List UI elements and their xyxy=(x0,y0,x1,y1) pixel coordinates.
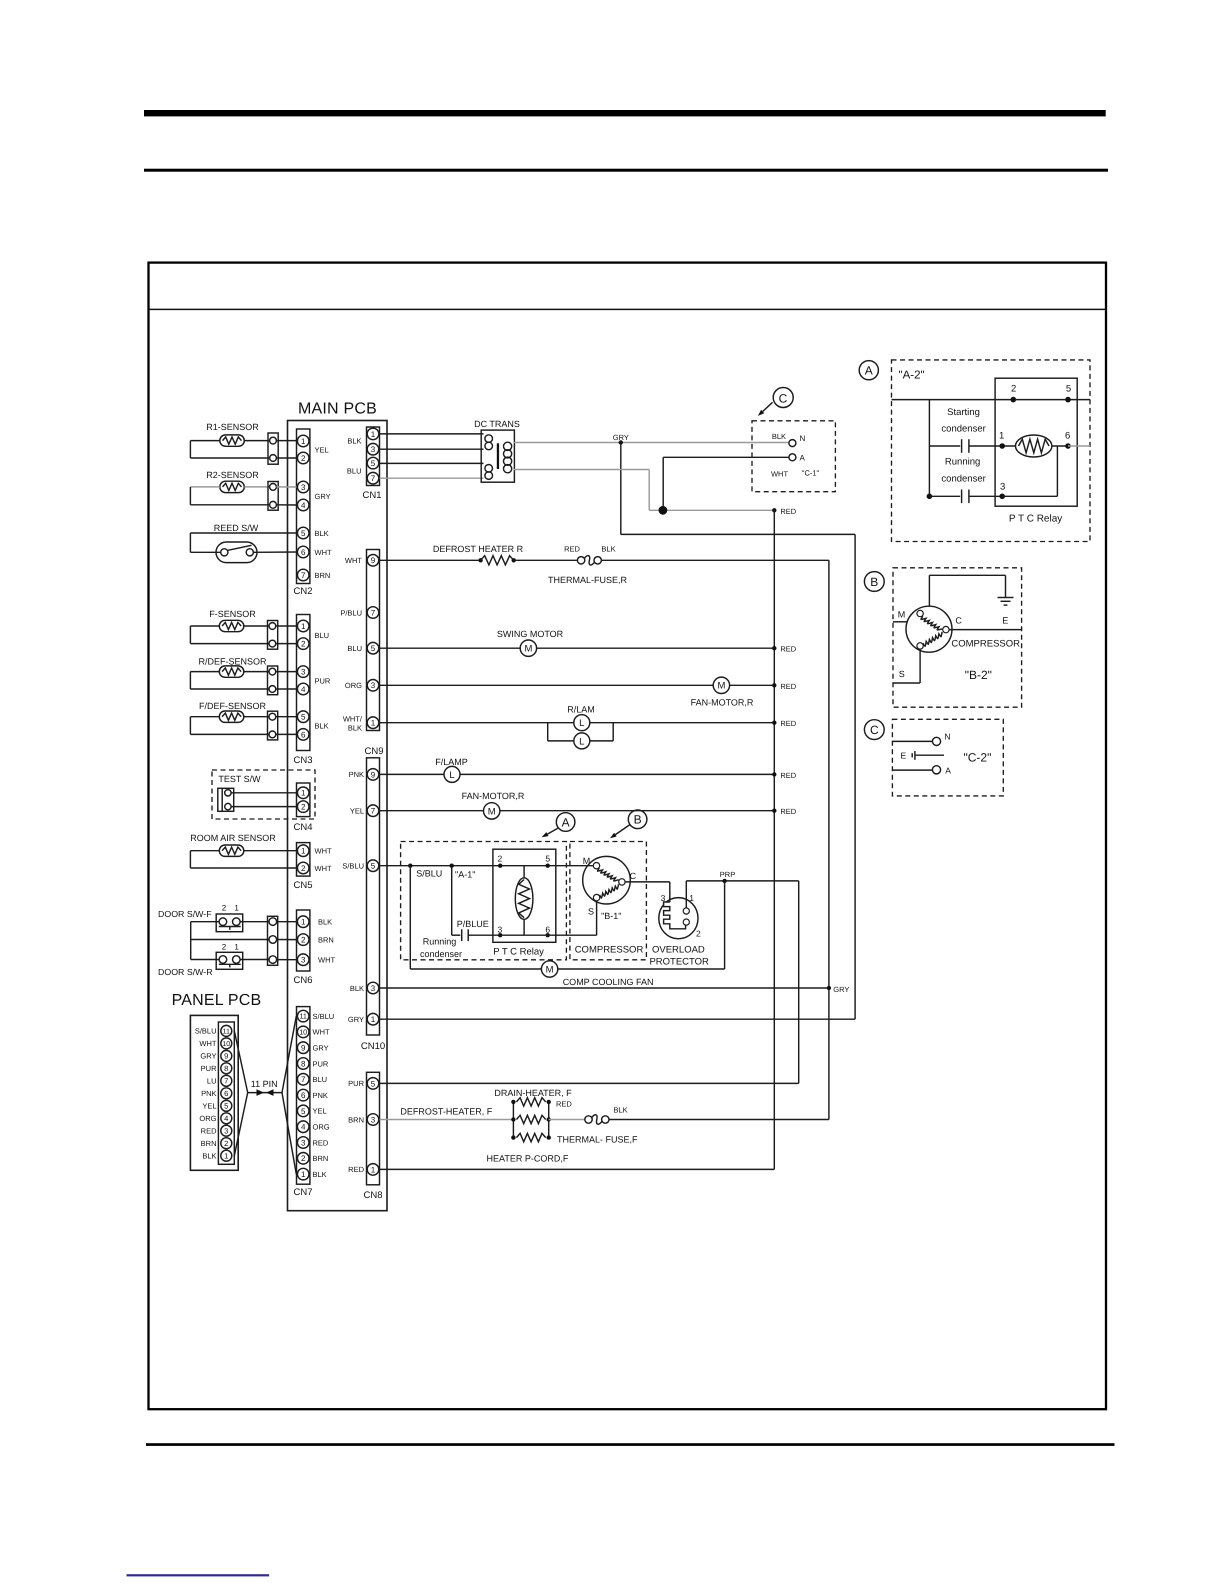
svg-text:RED: RED xyxy=(201,1126,217,1135)
svg-text:LU: LU xyxy=(207,1077,217,1086)
svg-text:9: 9 xyxy=(224,1052,228,1061)
svg-text:5: 5 xyxy=(301,529,306,538)
svg-text:RED: RED xyxy=(780,719,796,728)
svg-text:C: C xyxy=(779,391,788,405)
svg-text:7: 7 xyxy=(224,1077,228,1086)
ground B-2 xyxy=(929,575,1013,625)
wire PRP xyxy=(686,870,798,883)
svg-text:1: 1 xyxy=(224,1151,228,1160)
wires CN1 to DC TRANS xyxy=(380,434,484,478)
svg-text:BRN: BRN xyxy=(348,1115,364,1124)
svg-text:M: M xyxy=(717,681,725,692)
svg-text:S/BLU: S/BLU xyxy=(416,869,442,879)
svg-text:F-SENSOR: F-SENSOR xyxy=(209,609,256,619)
svg-text:PNK: PNK xyxy=(201,1089,216,1098)
svg-text:GRY: GRY xyxy=(313,1044,329,1053)
svg-text:R/LAM: R/LAM xyxy=(567,705,595,715)
svg-text:8: 8 xyxy=(224,1064,228,1073)
svg-text:BLU: BLU xyxy=(315,631,330,640)
connector CN10 xyxy=(342,758,385,1052)
svg-text:BRN: BRN xyxy=(313,1154,329,1163)
svg-text:PROTECTOR: PROTECTOR xyxy=(649,957,709,968)
svg-text:P/BLU: P/BLU xyxy=(340,608,362,617)
svg-text:11: 11 xyxy=(299,1012,306,1021)
svg-text:9: 9 xyxy=(371,556,376,565)
thermistor F-SENSOR xyxy=(190,609,296,649)
svg-text:1: 1 xyxy=(301,1170,306,1179)
svg-text:F/LAMP: F/LAMP xyxy=(435,757,468,767)
svg-text:9: 9 xyxy=(371,770,376,779)
svg-text:"B-1": "B-1" xyxy=(601,911,621,921)
lamp R/LAM xyxy=(380,705,797,749)
svg-text:8: 8 xyxy=(301,1059,306,1068)
motor COMP COOLING FAN xyxy=(410,866,724,987)
svg-text:5: 5 xyxy=(545,854,550,864)
svg-text:RED: RED xyxy=(348,1165,364,1174)
svg-text:10: 10 xyxy=(299,1028,307,1037)
svg-text:2: 2 xyxy=(222,942,227,951)
svg-text:FAN-MOTOR,R: FAN-MOTOR,R xyxy=(462,791,525,801)
svg-text:B: B xyxy=(870,575,878,589)
wire secondary bottom xyxy=(514,470,775,511)
svg-text:E: E xyxy=(1002,616,1008,626)
door switch DOOR S/W-R xyxy=(158,942,270,977)
svg-text:condenser: condenser xyxy=(941,424,985,435)
svg-text:7: 7 xyxy=(301,1075,306,1084)
svg-text:2: 2 xyxy=(301,803,306,812)
svg-text:A: A xyxy=(945,766,951,776)
svg-text:FAN-MOTOR,R: FAN-MOTOR,R xyxy=(691,698,754,708)
svg-text:M: M xyxy=(898,610,906,620)
svg-text:Starting: Starting xyxy=(947,407,980,418)
dashed box A-1 xyxy=(401,842,567,960)
svg-text:THERMAL-FUSE,R: THERMAL-FUSE,R xyxy=(548,575,628,585)
svg-text:Running: Running xyxy=(423,937,457,947)
svg-text:BLU: BLU xyxy=(347,644,362,653)
wires B-2 terminals xyxy=(893,622,1022,683)
compressor B-2 xyxy=(898,606,1020,682)
connector CN8 xyxy=(348,1072,382,1201)
transformer DC TRANS xyxy=(474,419,520,482)
svg-text:WHT: WHT xyxy=(318,956,335,965)
svg-text:4: 4 xyxy=(301,1123,306,1132)
svg-text:2: 2 xyxy=(1011,384,1016,395)
svg-text:2: 2 xyxy=(696,929,701,939)
PANEL PCB outline xyxy=(190,1015,238,1170)
svg-text:3: 3 xyxy=(371,681,376,690)
svg-text:YEL: YEL xyxy=(315,445,329,454)
svg-text:1: 1 xyxy=(371,430,376,439)
capacitor Running condenser A-1 xyxy=(420,866,500,959)
svg-text:6: 6 xyxy=(301,1091,306,1100)
callout B arrow xyxy=(610,810,647,838)
connector CN2 xyxy=(293,429,332,597)
wire C-1 A-line xyxy=(663,457,789,506)
wire C to protector xyxy=(625,882,670,902)
svg-text:1: 1 xyxy=(999,431,1004,442)
svg-text:GRY: GRY xyxy=(200,1052,216,1061)
svg-text:7: 7 xyxy=(371,608,376,617)
svg-text:WHT: WHT xyxy=(199,1039,216,1048)
svg-text:DOOR S/W-F: DOOR S/W-F xyxy=(158,909,212,919)
svg-text:3: 3 xyxy=(371,984,376,993)
svg-text:3: 3 xyxy=(301,956,306,965)
test switch TEST S/W xyxy=(212,770,315,819)
svg-text:1: 1 xyxy=(371,1015,376,1024)
wire CN8 RED pin1 xyxy=(380,1168,775,1170)
wire PRP to CN8 pin5 vertical xyxy=(798,881,800,1084)
svg-text:"C-1": "C-1" xyxy=(802,469,820,478)
top rule thick xyxy=(144,110,1106,116)
svg-text:WHT: WHT xyxy=(315,847,332,856)
svg-text:5: 5 xyxy=(371,1079,376,1088)
svg-text:11 PIN: 11 PIN xyxy=(251,1079,278,1089)
svg-text:N: N xyxy=(944,732,950,742)
terminal A C-2 xyxy=(892,766,951,776)
terminal N C-2 xyxy=(892,732,950,746)
capacitor Starting condenser xyxy=(929,407,1015,453)
resistor DEFROST HEATER R xyxy=(380,544,578,565)
svg-text:C: C xyxy=(870,723,879,737)
svg-text:3: 3 xyxy=(224,1127,228,1136)
svg-text:CN9: CN9 xyxy=(364,746,383,757)
svg-text:A: A xyxy=(800,454,806,463)
label C-2 xyxy=(963,751,991,765)
door switch inline connector xyxy=(191,916,297,965)
svg-text:3: 3 xyxy=(301,1138,306,1147)
terminal E C-2 xyxy=(900,751,944,761)
svg-text:C: C xyxy=(630,871,637,881)
svg-text:PANEL PCB: PANEL PCB xyxy=(172,992,262,1009)
svg-text:1: 1 xyxy=(301,789,306,798)
svg-text:"A-1": "A-1" xyxy=(455,870,475,880)
svg-text:3: 3 xyxy=(1000,482,1005,493)
svg-text:6: 6 xyxy=(545,925,550,935)
svg-text:S: S xyxy=(899,669,905,679)
svg-text:"C-2": "C-2" xyxy=(963,751,991,765)
frame header line xyxy=(149,308,1107,310)
wire CN8 PUR pin5 xyxy=(380,1082,799,1084)
svg-text:5: 5 xyxy=(1066,384,1071,395)
svg-text:1: 1 xyxy=(301,622,306,631)
svg-text:R/DEF-SENSOR: R/DEF-SENSOR xyxy=(198,657,267,667)
svg-text:1: 1 xyxy=(301,437,306,446)
svg-text:5: 5 xyxy=(371,862,376,871)
PTC relay A-2 xyxy=(995,378,1077,524)
svg-text:ORG: ORG xyxy=(345,681,362,690)
svg-text:WHT: WHT xyxy=(345,556,362,565)
svg-text:2: 2 xyxy=(301,936,306,945)
label A-2 xyxy=(899,370,925,382)
svg-text:BRN: BRN xyxy=(315,571,331,580)
PTC relay A-1 xyxy=(493,849,556,957)
svg-text:THERMAL- FUSE,F: THERMAL- FUSE,F xyxy=(557,1135,638,1145)
svg-text:CN6: CN6 xyxy=(293,975,312,986)
reed switch REED S/W xyxy=(190,523,296,563)
svg-text:M: M xyxy=(488,806,496,817)
svg-text:RED: RED xyxy=(780,645,796,654)
wire GRY loop xyxy=(621,534,855,1019)
svg-text:C: C xyxy=(955,616,962,626)
svg-text:DEFROST HEATER R: DEFROST HEATER R xyxy=(433,544,524,554)
svg-text:4: 4 xyxy=(301,685,306,694)
svg-text:5: 5 xyxy=(371,459,376,468)
svg-text:YEL: YEL xyxy=(202,1102,216,1111)
callout A arrow xyxy=(542,813,575,838)
svg-text:6: 6 xyxy=(224,1089,228,1098)
svg-text:2: 2 xyxy=(301,640,306,649)
wire PTC bottom to S xyxy=(500,899,596,935)
svg-text:N: N xyxy=(800,434,806,443)
svg-text:COMPRESSOR: COMPRESSOR xyxy=(951,639,1020,650)
svg-text:10: 10 xyxy=(222,1041,230,1048)
svg-text:7: 7 xyxy=(301,571,306,580)
svg-text:B: B xyxy=(634,813,642,827)
svg-text:PUR: PUR xyxy=(313,1059,329,1068)
svg-text:P T C Relay: P T C Relay xyxy=(493,947,544,958)
bottom rule xyxy=(146,1443,1115,1446)
svg-text:BLK: BLK xyxy=(350,984,364,993)
PANEL PCB pin header xyxy=(195,1022,234,1164)
svg-text:R2-SENSOR: R2-SENSOR xyxy=(206,470,259,480)
motor FAN-MOTOR,R left xyxy=(380,791,797,819)
svg-text:BLK: BLK xyxy=(601,545,615,554)
svg-text:MAIN PCB: MAIN PCB xyxy=(298,401,377,418)
svg-text:7: 7 xyxy=(371,474,376,483)
svg-text:YEL: YEL xyxy=(350,807,364,816)
overload protector xyxy=(649,881,709,968)
svg-text:PUR: PUR xyxy=(348,1079,364,1088)
node RED xyxy=(772,507,797,516)
svg-text:6: 6 xyxy=(301,548,306,557)
svg-text:RED: RED xyxy=(556,1100,572,1109)
svg-text:BLK: BLK xyxy=(614,1106,628,1115)
svg-text:BLK: BLK xyxy=(315,721,329,730)
svg-text:P T C Relay: P T C Relay xyxy=(1009,514,1062,525)
wire PTC 6-3 loop xyxy=(1002,443,1090,496)
node secondary junction xyxy=(659,506,668,515)
svg-text:1: 1 xyxy=(689,893,694,903)
svg-text:WHT: WHT xyxy=(315,864,332,873)
svg-text:M: M xyxy=(546,964,554,975)
heater network DRAIN/DEFROST HEATER F xyxy=(380,1088,639,1164)
wire CN10 GRY pin1 xyxy=(380,1018,856,1020)
callout A top-right xyxy=(859,361,878,380)
svg-text:RED: RED xyxy=(564,545,580,554)
svg-text:CN4: CN4 xyxy=(293,822,312,833)
svg-text:BLK: BLK xyxy=(315,529,329,538)
top rule thin xyxy=(144,169,1108,172)
thermistor F/DEF-SENSOR xyxy=(190,701,296,740)
svg-text:5: 5 xyxy=(224,1102,228,1111)
connector CN6 xyxy=(293,910,335,986)
svg-text:2: 2 xyxy=(224,1139,228,1148)
MAIN PCB outline xyxy=(288,421,388,1211)
svg-text:6: 6 xyxy=(1065,431,1070,442)
svg-text:BLU: BLU xyxy=(347,467,362,476)
svg-text:7: 7 xyxy=(371,807,376,816)
svg-text:P/BLUE: P/BLUE xyxy=(457,919,489,929)
PANEL PCB label xyxy=(172,992,262,1009)
svg-text:RED: RED xyxy=(780,807,796,816)
svg-text:PUR: PUR xyxy=(201,1064,217,1073)
capacitor Running condenser A-2 xyxy=(929,457,1005,504)
svg-text:1: 1 xyxy=(371,719,376,728)
door switch DOOR S/W-F xyxy=(158,904,270,932)
svg-text:BLK: BLK xyxy=(202,1151,216,1160)
motor SWING MOTOR xyxy=(380,629,797,656)
svg-text:RED: RED xyxy=(780,771,796,780)
svg-text:R1-SENSOR: R1-SENSOR xyxy=(206,422,259,432)
svg-text:1: 1 xyxy=(371,1165,376,1174)
svg-text:YEL: YEL xyxy=(313,1107,327,1116)
wire GRY secondary top xyxy=(514,433,789,445)
wire CN10 BLK pin3 xyxy=(380,985,850,994)
MAIN PCB label xyxy=(298,401,377,418)
dashed box B-1 xyxy=(570,842,647,960)
svg-text:"B-2": "B-2" xyxy=(965,668,992,682)
svg-text:CN1: CN1 xyxy=(362,490,381,501)
connector CN9 xyxy=(340,550,383,758)
svg-text:PRP: PRP xyxy=(720,870,735,879)
svg-text:1: 1 xyxy=(301,847,306,856)
svg-text:L: L xyxy=(579,736,584,747)
svg-text:CN10: CN10 xyxy=(361,1041,385,1052)
svg-text:REED S/W: REED S/W xyxy=(214,523,259,533)
svg-text:2: 2 xyxy=(222,904,227,913)
svg-text:OVERLOAD: OVERLOAD xyxy=(652,945,705,956)
connector C-1 detail xyxy=(752,421,835,492)
svg-text:WHT: WHT xyxy=(315,548,332,557)
svg-text:6: 6 xyxy=(301,730,306,739)
wire BLK vertical xyxy=(828,560,830,1119)
connector CN1 xyxy=(347,427,382,501)
svg-text:WHT/: WHT/ xyxy=(343,715,363,724)
motor FAN-MOTOR,R right xyxy=(380,677,797,707)
svg-text:ORG: ORG xyxy=(199,1114,216,1123)
connector CN5 xyxy=(293,843,332,891)
svg-text:DOOR S/W-R: DOOR S/W-R xyxy=(158,967,213,977)
svg-text:GRY: GRY xyxy=(348,1015,364,1024)
svg-text:9: 9 xyxy=(301,1044,306,1053)
svg-text:RED: RED xyxy=(780,507,796,516)
svg-text:2: 2 xyxy=(301,864,306,873)
11 PIN harness link xyxy=(234,1016,296,1174)
svg-text:BLK: BLK xyxy=(318,918,332,927)
svg-text:SWING MOTOR: SWING MOTOR xyxy=(497,629,564,639)
svg-text:S: S xyxy=(588,907,594,917)
compressor B-1 xyxy=(575,856,644,956)
svg-text:PUR: PUR xyxy=(315,676,331,685)
svg-text:TEST S/W: TEST S/W xyxy=(218,774,261,784)
svg-text:A: A xyxy=(562,815,570,829)
svg-text:condenser: condenser xyxy=(420,949,462,959)
thermal fuse THERMAL-FUSE,R xyxy=(548,545,829,586)
wire S-BLU row xyxy=(380,864,594,880)
svg-text:COMP COOLING FAN: COMP COOLING FAN xyxy=(563,977,654,987)
svg-text:GRY: GRY xyxy=(833,985,849,994)
dashed box C-2 xyxy=(892,719,1003,796)
dashed box B-2 xyxy=(893,568,1022,707)
svg-text:DRAIN-HEATER, F: DRAIN-HEATER, F xyxy=(494,1088,572,1098)
svg-text:3: 3 xyxy=(301,668,306,677)
svg-text:S/BLU: S/BLU xyxy=(342,862,364,871)
svg-text:2: 2 xyxy=(498,854,503,864)
thermistor R1-SENSOR xyxy=(190,422,296,464)
svg-text:WHT: WHT xyxy=(313,1028,330,1037)
svg-text:CN7: CN7 xyxy=(293,1187,312,1198)
svg-text:3: 3 xyxy=(371,1115,376,1124)
svg-text:ROOM AIR SENSOR: ROOM AIR SENSOR xyxy=(190,833,276,843)
svg-text:WHT: WHT xyxy=(771,470,788,479)
svg-text:BLK: BLK xyxy=(313,1170,327,1179)
lamp F/LAMP xyxy=(380,757,797,782)
svg-text:3: 3 xyxy=(301,483,306,492)
svg-text:RED: RED xyxy=(780,682,796,691)
thermistor R/DEF-SENSOR xyxy=(190,657,296,695)
thermistor R2-SENSOR xyxy=(190,470,296,510)
svg-text:3: 3 xyxy=(371,445,376,454)
wire PRP to comp fan vertical xyxy=(724,881,726,969)
svg-text:Running: Running xyxy=(945,457,980,468)
svg-text:BLK: BLK xyxy=(347,437,361,446)
svg-text:L: L xyxy=(579,718,584,729)
connector CN4 xyxy=(293,783,312,833)
callout C right xyxy=(864,720,884,740)
svg-text:BRN: BRN xyxy=(318,935,334,944)
footer blue link line xyxy=(127,1574,270,1576)
svg-text:5: 5 xyxy=(371,644,376,653)
svg-text:11: 11 xyxy=(223,1028,230,1035)
svg-text:"A-2": "A-2" xyxy=(899,370,925,382)
svg-text:condenser: condenser xyxy=(941,474,985,485)
svg-text:5: 5 xyxy=(301,1107,306,1116)
svg-text:S/BLU: S/BLU xyxy=(195,1027,217,1036)
svg-text:ORG: ORG xyxy=(313,1123,330,1132)
svg-text:PNK: PNK xyxy=(349,770,364,779)
svg-text:1: 1 xyxy=(301,918,306,927)
svg-text:CN5: CN5 xyxy=(293,880,312,891)
svg-text:E: E xyxy=(900,751,906,761)
svg-text:GRY: GRY xyxy=(315,492,331,501)
svg-text:BRN: BRN xyxy=(201,1139,217,1148)
callout C arrow xyxy=(758,388,793,416)
svg-text:3: 3 xyxy=(498,925,503,935)
wire A-2 top 2-5 xyxy=(892,397,1091,403)
svg-text:2: 2 xyxy=(301,1154,306,1163)
svg-text:A: A xyxy=(865,364,873,378)
svg-text:DC TRANS: DC TRANS xyxy=(474,419,520,429)
svg-text:2: 2 xyxy=(301,454,306,463)
wire A-2 left branch xyxy=(927,400,933,500)
svg-text:S/BLU: S/BLU xyxy=(313,1012,335,1021)
svg-text:RED: RED xyxy=(313,1138,329,1147)
diagram frame xyxy=(149,263,1107,1410)
connector CN3 xyxy=(293,615,330,767)
svg-text:F/DEF-SENSOR: F/DEF-SENSOR xyxy=(199,701,267,711)
wire GRY vertical drop xyxy=(620,443,622,535)
svg-text:M: M xyxy=(583,856,591,866)
svg-text:BLU: BLU xyxy=(313,1075,328,1084)
svg-text:BLK: BLK xyxy=(772,432,786,441)
thermal fuse THERMAL-FUSE,F xyxy=(549,1106,829,1125)
svg-text:4: 4 xyxy=(224,1114,228,1123)
dashed box A-2 xyxy=(892,360,1091,542)
svg-text:1: 1 xyxy=(234,904,239,913)
svg-text:PNK: PNK xyxy=(313,1091,328,1100)
svg-text:1: 1 xyxy=(234,942,239,951)
svg-text:HEATER P-CORD,F: HEATER P-CORD,F xyxy=(487,1154,569,1164)
